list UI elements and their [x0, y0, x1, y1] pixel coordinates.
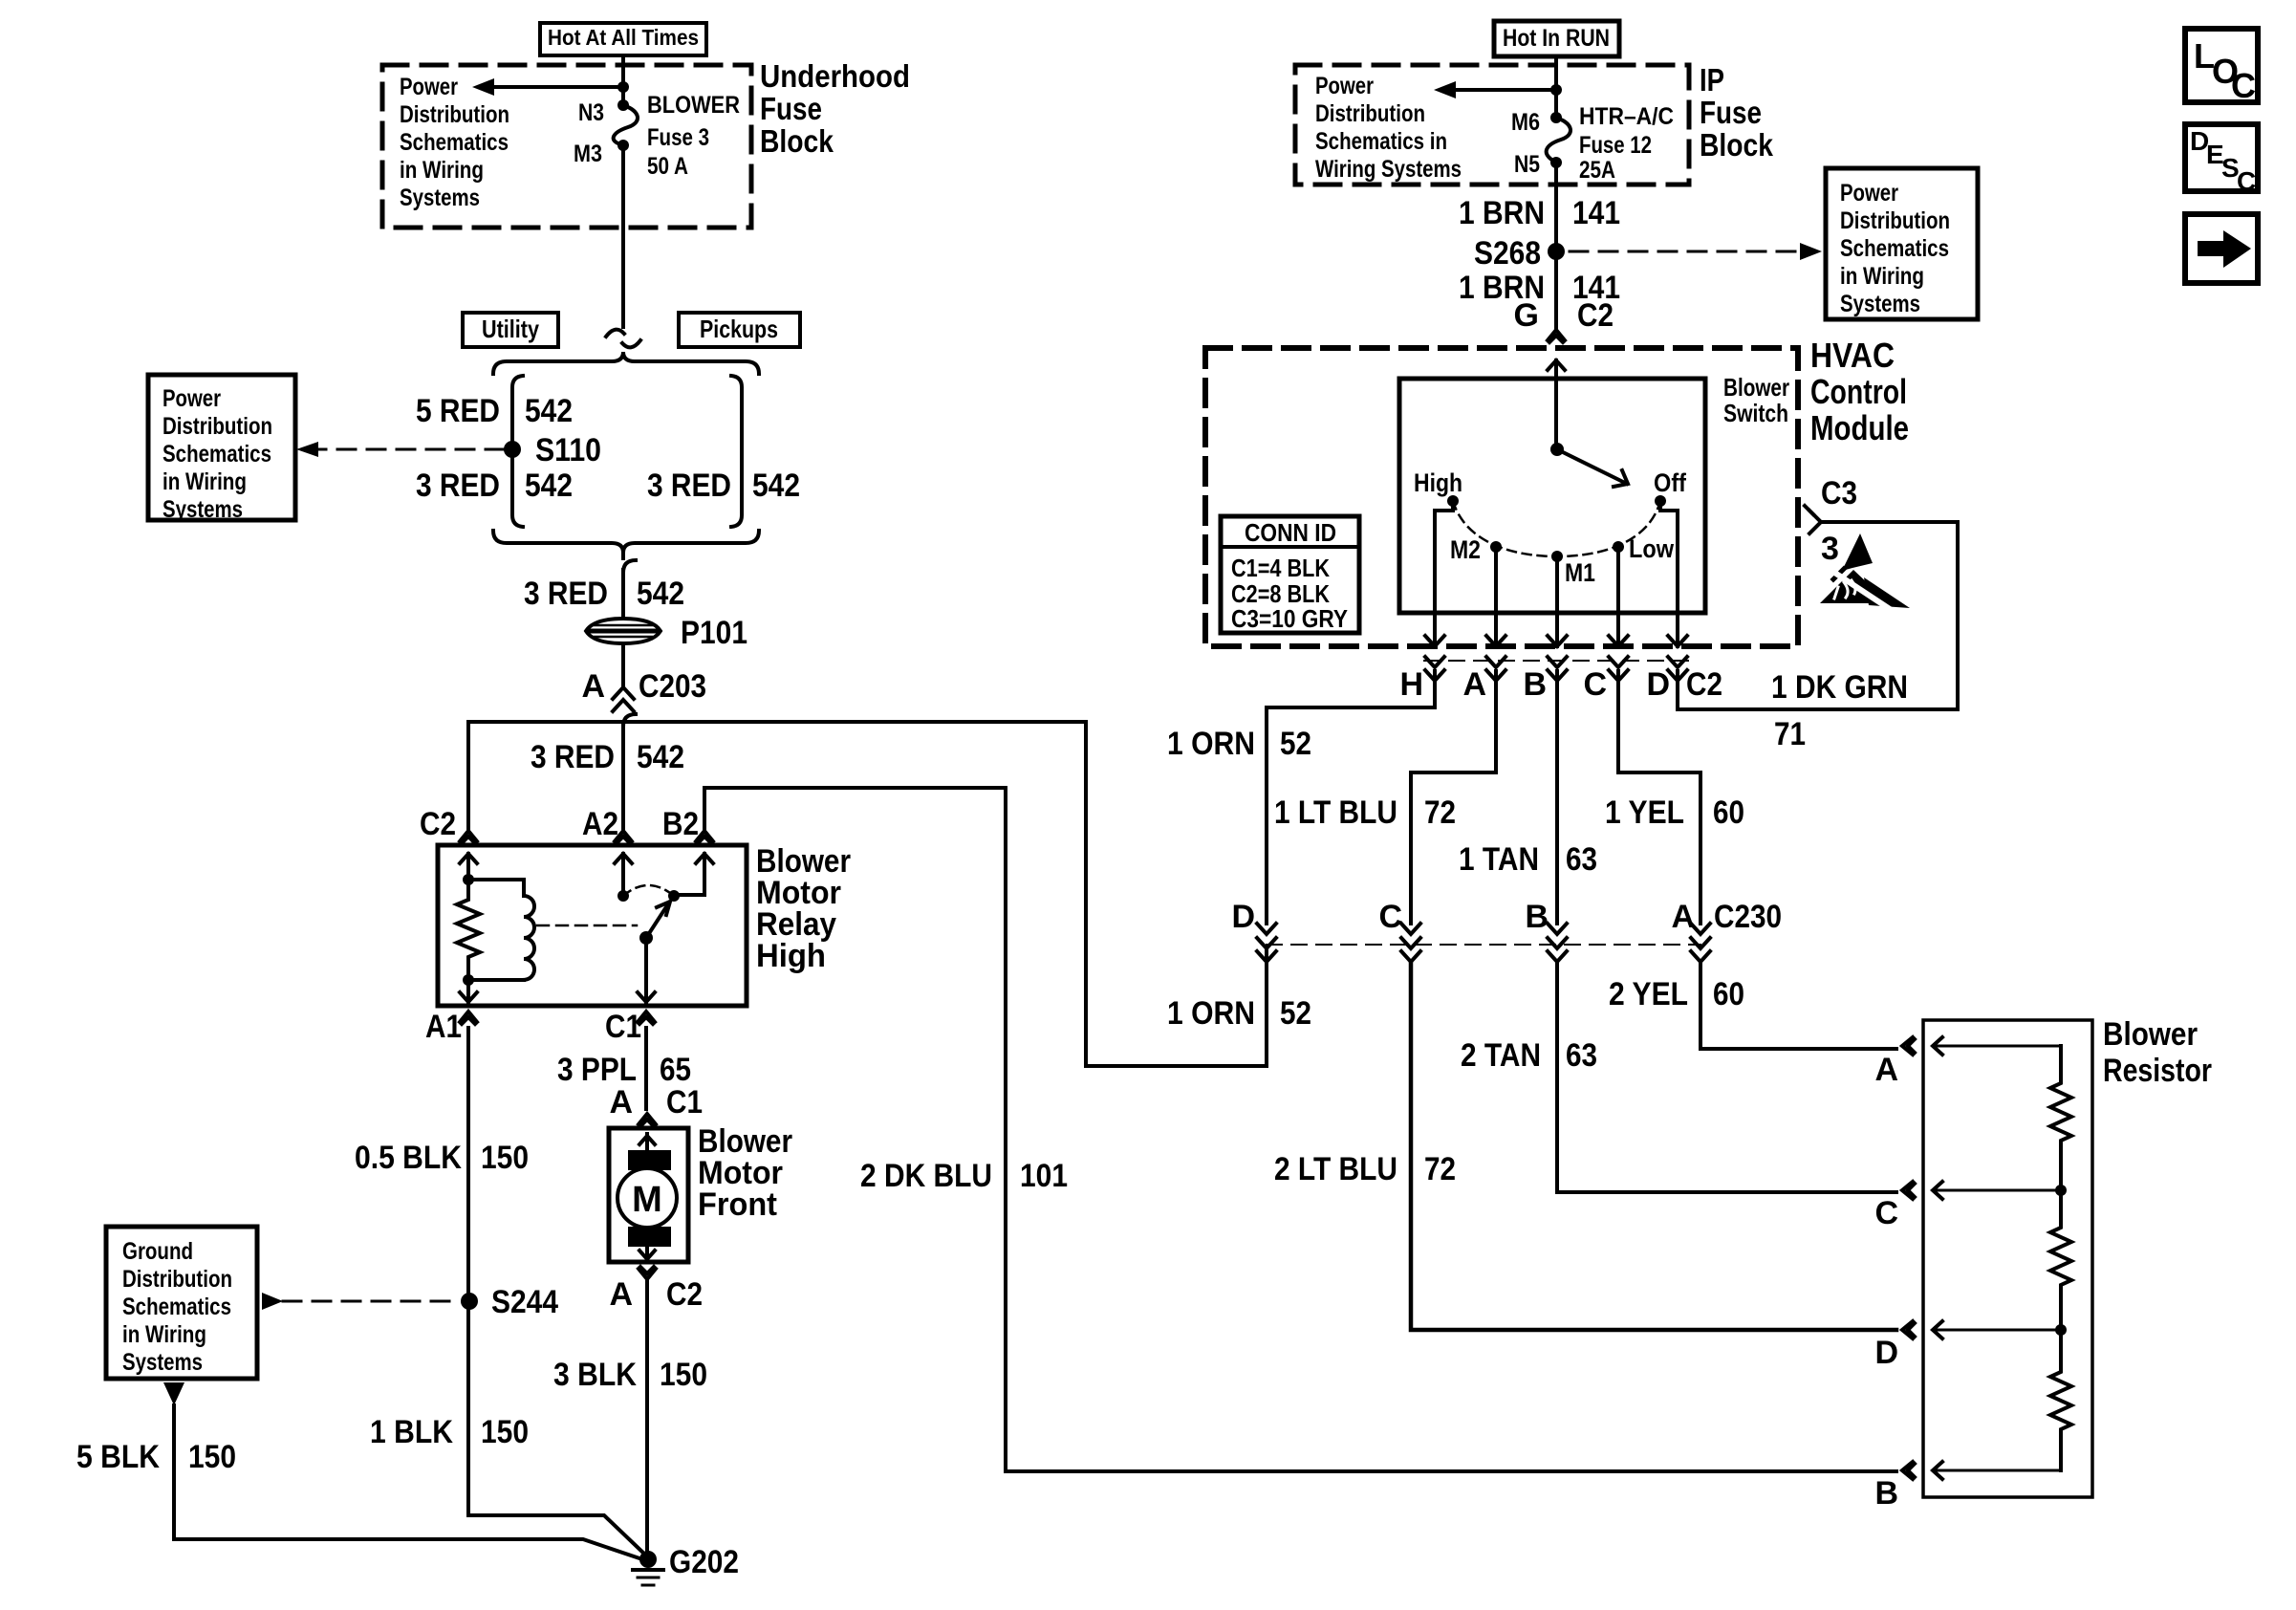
svg-text:A: A [1671, 899, 1695, 935]
svg-text:Control: Control [1810, 372, 1907, 411]
svg-text:Block: Block [760, 123, 834, 159]
svg-text:Pickups: Pickups [700, 315, 778, 343]
svg-text:A2: A2 [582, 806, 618, 842]
svg-text:25A: 25A [1579, 157, 1615, 184]
svg-text:72: 72 [1424, 794, 1456, 831]
svg-text:Ground: Ground [122, 1238, 193, 1265]
svg-text:542: 542 [637, 739, 684, 775]
svg-text:2 DK BLU: 2 DK BLU [860, 1158, 992, 1194]
svg-text:M: M [632, 1180, 662, 1220]
svg-text:Wiring Systems: Wiring Systems [1315, 156, 1462, 183]
svg-text:A: A [1462, 666, 1486, 703]
svg-text:Schematics in: Schematics in [1315, 128, 1447, 155]
svg-text:C: C [1874, 1195, 1898, 1231]
svg-text:2 TAN: 2 TAN [1461, 1037, 1541, 1074]
svg-text:CONN ID: CONN ID [1245, 518, 1336, 547]
svg-text:M3: M3 [574, 141, 602, 167]
svg-text:Systems: Systems [1840, 291, 1920, 317]
svg-text:C1: C1 [666, 1084, 703, 1120]
svg-text:50 A: 50 A [647, 153, 688, 180]
svg-text:Distribution: Distribution [162, 413, 272, 440]
svg-text:150: 150 [188, 1439, 236, 1475]
svg-text:Distribution: Distribution [122, 1266, 232, 1293]
svg-text:in Wiring: in Wiring [122, 1321, 206, 1348]
svg-text:3 RED: 3 RED [524, 576, 608, 612]
svg-text:B: B [1525, 899, 1549, 935]
svg-text:in Wiring: in Wiring [400, 157, 484, 184]
svg-text:Low: Low [1629, 534, 1675, 563]
svg-text:BLOWER: BLOWER [647, 92, 740, 119]
svg-text:1 ORN: 1 ORN [1167, 995, 1255, 1032]
svg-text:A1: A1 [425, 1009, 462, 1045]
svg-text:5 RED: 5 RED [416, 393, 500, 429]
svg-text:D: D [1646, 666, 1670, 703]
svg-text:Power: Power [162, 385, 221, 412]
svg-text:C1=4 BLK: C1=4 BLK [1231, 554, 1330, 582]
svg-text:D: D [1231, 899, 1255, 935]
svg-text:542: 542 [525, 393, 573, 429]
svg-text:1 TAN: 1 TAN [1459, 841, 1539, 878]
svg-text:542: 542 [752, 468, 800, 504]
svg-text:C: C [1583, 666, 1607, 703]
svg-text:0.5 BLK: 0.5 BLK [355, 1140, 462, 1176]
svg-text:G: G [1514, 297, 1539, 334]
svg-text:Schematics: Schematics [122, 1294, 231, 1320]
svg-text:A: A [1874, 1052, 1898, 1088]
svg-text:71: 71 [1774, 716, 1806, 752]
svg-text:1 BLK: 1 BLK [370, 1414, 453, 1450]
svg-text:D: D [1874, 1335, 1898, 1371]
svg-text:5 BLK: 5 BLK [76, 1439, 160, 1475]
svg-text:C: C [1378, 899, 1402, 935]
svg-text:A: A [609, 1276, 633, 1313]
svg-text:Block: Block [1700, 127, 1774, 163]
svg-text:150: 150 [660, 1357, 707, 1393]
svg-text:Resistor: Resistor [2103, 1053, 2212, 1089]
svg-text:542: 542 [525, 468, 573, 504]
svg-text:Schematics: Schematics [1840, 235, 1949, 262]
svg-text:3 RED: 3 RED [647, 468, 731, 504]
svg-text:Systems: Systems [122, 1349, 203, 1376]
svg-text:Underhood: Underhood [760, 58, 910, 94]
svg-text:C230: C230 [1714, 899, 1782, 935]
svg-text:1 DK GRN: 1 DK GRN [1771, 669, 1908, 706]
svg-text:Schematics: Schematics [400, 129, 509, 156]
svg-text:3 PPL: 3 PPL [557, 1052, 637, 1088]
svg-text:B: B [1874, 1475, 1898, 1512]
svg-text:C1: C1 [605, 1009, 641, 1045]
svg-text:3: 3 [1821, 531, 1839, 567]
svg-text:S110: S110 [535, 432, 601, 468]
svg-text:72: 72 [1424, 1151, 1456, 1187]
svg-text:Fuse 3: Fuse 3 [647, 124, 709, 151]
svg-text:H: H [1399, 666, 1423, 703]
svg-text:3 RED: 3 RED [531, 739, 615, 775]
svg-text:Off: Off [1654, 468, 1687, 497]
svg-text:3 RED: 3 RED [416, 468, 500, 504]
svg-text:2 YEL: 2 YEL [1609, 976, 1688, 1012]
svg-text:C2: C2 [1686, 666, 1722, 703]
svg-text:C: C [2237, 166, 2256, 196]
svg-text:Switch: Switch [1723, 399, 1788, 427]
svg-text:S244: S244 [491, 1284, 558, 1320]
svg-text:150: 150 [481, 1140, 529, 1176]
svg-text:Fuse: Fuse [1700, 95, 1762, 130]
svg-text:Systems: Systems [400, 185, 480, 211]
svg-text:60: 60 [1713, 976, 1744, 1012]
svg-text:Blower: Blower [1723, 373, 1789, 402]
svg-text:in Wiring: in Wiring [162, 468, 247, 495]
svg-text:S268: S268 [1474, 235, 1541, 272]
svg-text:Power: Power [1840, 180, 1898, 207]
svg-text:G202: G202 [669, 1544, 739, 1580]
svg-text:141: 141 [1572, 195, 1620, 231]
svg-text:IP: IP [1700, 62, 1724, 98]
svg-text:Distribution: Distribution [400, 101, 509, 128]
svg-text:C2: C2 [1577, 297, 1614, 334]
svg-text:C3: C3 [1821, 475, 1857, 511]
svg-text:Distribution: Distribution [1315, 100, 1425, 127]
svg-text:65: 65 [660, 1052, 691, 1088]
svg-text:60: 60 [1713, 794, 1744, 831]
svg-text:542: 542 [637, 576, 684, 612]
svg-text:63: 63 [1566, 1037, 1597, 1074]
svg-text:1 YEL: 1 YEL [1605, 794, 1684, 831]
svg-text:Power: Power [400, 74, 458, 100]
svg-text:C203: C203 [639, 668, 706, 705]
svg-text:B: B [1523, 666, 1547, 703]
svg-text:Hot In RUN: Hot In RUN [1503, 25, 1610, 52]
svg-text:Fuse 12: Fuse 12 [1579, 132, 1652, 159]
svg-text:Power: Power [1315, 73, 1374, 99]
svg-text:N3: N3 [578, 99, 604, 126]
svg-text:C3=10 GRY: C3=10 GRY [1231, 604, 1348, 633]
svg-text:52: 52 [1280, 995, 1311, 1032]
svg-text:C2: C2 [666, 1276, 703, 1313]
svg-text:1 LT BLU: 1 LT BLU [1274, 794, 1397, 831]
svg-text:Front: Front [698, 1186, 777, 1223]
svg-text:N5: N5 [1514, 151, 1540, 178]
svg-text:52: 52 [1280, 726, 1311, 762]
svg-text:in Wiring: in Wiring [1840, 263, 1924, 290]
svg-text:M2: M2 [1450, 535, 1481, 564]
svg-text:A: A [609, 1084, 633, 1120]
svg-text:150: 150 [481, 1414, 529, 1450]
svg-text:2 LT BLU: 2 LT BLU [1274, 1151, 1397, 1187]
svg-text:A: A [581, 668, 605, 705]
svg-text:HTR–A/C: HTR–A/C [1579, 103, 1674, 130]
svg-text:C: C [2231, 66, 2256, 105]
svg-text:101: 101 [1020, 1158, 1068, 1194]
svg-text:3 BLK: 3 BLK [553, 1357, 637, 1393]
svg-text:Utility: Utility [482, 315, 539, 343]
svg-text:Distribution: Distribution [1840, 207, 1950, 234]
svg-text:Blower: Blower [2103, 1016, 2198, 1053]
svg-text:Hot At All Times: Hot At All Times [548, 25, 699, 50]
svg-text:Module: Module [1810, 408, 1909, 447]
svg-text:Schematics: Schematics [162, 441, 271, 468]
svg-text:High: High [1414, 468, 1462, 497]
svg-text:B2: B2 [662, 806, 699, 842]
svg-text:63: 63 [1566, 841, 1597, 878]
svg-text:M1: M1 [1565, 558, 1595, 587]
svg-text:HVAC: HVAC [1810, 336, 1895, 375]
svg-text:M6: M6 [1511, 109, 1540, 136]
svg-text:Fuse: Fuse [760, 91, 822, 126]
svg-text:1 ORN: 1 ORN [1167, 726, 1255, 762]
svg-text:P101: P101 [681, 615, 747, 651]
svg-text:High: High [756, 938, 826, 974]
svg-text:1 BRN: 1 BRN [1459, 195, 1545, 231]
svg-text:Systems: Systems [162, 496, 243, 523]
svg-text:C2: C2 [420, 806, 456, 842]
